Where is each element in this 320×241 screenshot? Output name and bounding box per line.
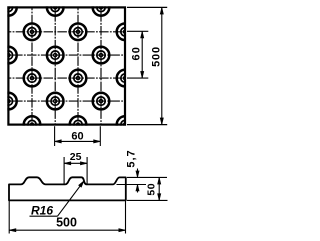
profile outline with dome bumps xyxy=(9,177,126,200)
dimension 60 right: arrowheads xyxy=(141,31,144,38)
dome bullseye D2 at (32.0,78.1) xyxy=(24,70,41,87)
dome bullseye D6 at (125.0,78.1) xyxy=(117,70,134,87)
dome bullseye E3 at (55.2,101.1) xyxy=(47,93,64,110)
dimension 500 bottom: dimension line xyxy=(9,229,125,231)
dimension 50: arrowheads xyxy=(158,177,161,184)
dimension 60 right: dimension line xyxy=(141,31,143,78)
dimension 5,7: extension line bottom (surface level) xyxy=(117,184,147,186)
dimension 500 right: arrowheads xyxy=(160,7,163,14)
svg-text:50: 50 xyxy=(145,183,157,196)
centerline vertical x=78 xyxy=(77,7,79,124)
dome bullseye D4 at (78.0,78.1) xyxy=(70,70,87,87)
centerline vertical x=55.2 xyxy=(54,7,56,124)
dimension 5,7: lower stem with up arrow xyxy=(137,185,139,193)
label R16: underline xyxy=(30,215,58,217)
dome bullseye A1 at (8.4,7.4) xyxy=(0,0,17,16)
dome bullseye F2 at (32.0,124.6) xyxy=(24,116,41,133)
centerline horizontal y=78.1 xyxy=(8,77,125,79)
dome bullseye C5 at (101.0,55.1) xyxy=(93,47,110,64)
dimension 60 bottom: arrowheads xyxy=(55,140,62,143)
dome bullseye A3 at (55.2,7.4) xyxy=(47,0,64,16)
dimension 500 bottom: arrowheads xyxy=(9,229,16,232)
dimension 25: arrowheads xyxy=(64,162,71,165)
svg-text:500: 500 xyxy=(56,215,77,229)
dome bullseye E1 at (8.4,101.1) xyxy=(0,93,17,110)
dome bullseye C1 at (8.4,55.1) xyxy=(0,47,17,64)
dimension 50: dimension line xyxy=(158,177,160,200)
dome bullseye F4 at (78.0,124.6) xyxy=(70,116,87,133)
dimension 25: dimension line xyxy=(64,162,87,164)
dimension 5,7: upper stem with down arrow xyxy=(137,169,139,178)
svg-text:60: 60 xyxy=(131,46,143,61)
svg-text:25: 25 xyxy=(70,151,82,163)
plate border xyxy=(8,7,125,124)
label R16: leader line xyxy=(58,181,85,216)
dimension 50: bottom extension line xyxy=(127,199,168,201)
centerline vertical x=32 xyxy=(31,7,33,124)
dimension 500 right: dimension line xyxy=(161,7,163,124)
dimension 500 right: extension lines xyxy=(127,6,167,8)
dome bullseye B6 at (125.0,31.8) xyxy=(117,24,134,41)
dome bullseye C3 at (55.2,55.1) xyxy=(47,47,64,64)
dimension 5,7: extension line top (bump crest level) xyxy=(127,176,167,178)
dimension 60 right: extension lines xyxy=(127,30,148,32)
centerline horizontal y=101.1 xyxy=(8,100,125,102)
dimension 60 bottom: dimension line xyxy=(55,140,101,142)
dimension 500 bottom: extension lines xyxy=(8,201,10,234)
svg-text:500: 500 xyxy=(151,46,163,67)
svg-text:R16: R16 xyxy=(31,204,53,218)
dome bullseye B4 at (78.0,31.8) xyxy=(70,24,87,41)
dome bullseye B2 at (32.0,31.8) xyxy=(24,24,41,41)
centerline horizontal y=31.8 xyxy=(8,31,125,33)
svg-text:60: 60 xyxy=(71,131,83,143)
dimension 60 bottom: extension lines xyxy=(54,126,56,146)
dome bullseye A5 at (101.0,7.4) xyxy=(93,0,110,16)
centerline vertical x=101 xyxy=(100,7,102,124)
centerline horizontal y=55.1 xyxy=(8,54,125,56)
dimension 25: extension lines xyxy=(63,157,65,184)
dome bullseye F6 at (125.0,124.6) xyxy=(117,116,134,133)
dome bullseye E5 at (101.0,101.1) xyxy=(93,93,110,110)
label R16: leader arrowhead xyxy=(79,181,84,187)
svg-text:5,7: 5,7 xyxy=(125,149,137,167)
